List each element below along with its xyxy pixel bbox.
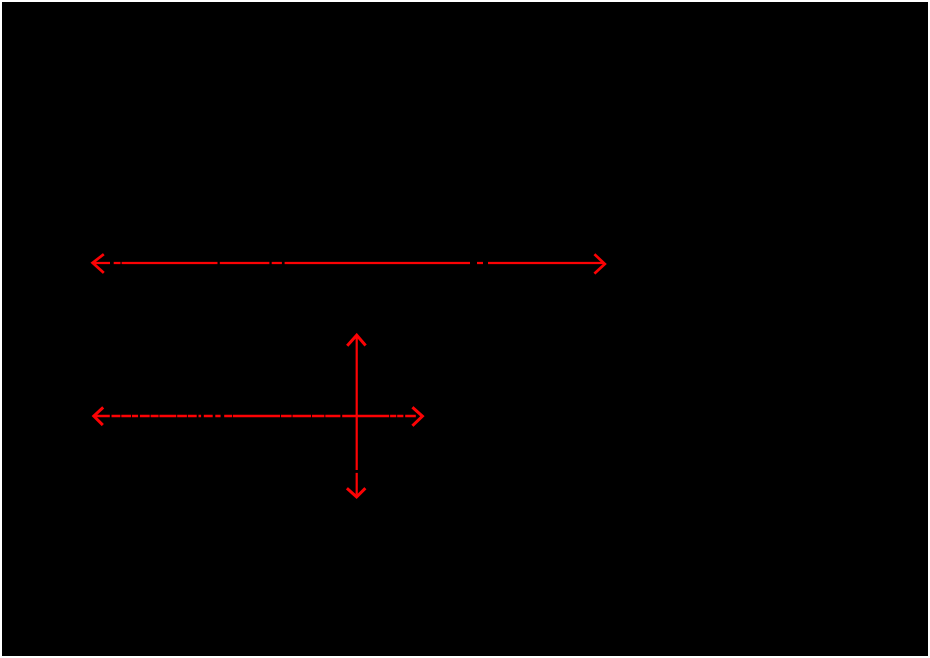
line CD (figure 2) double-headed red arrow, horizontal axis [94, 407, 423, 426]
wire: shaft broken by overlapping text into dashes [96, 415, 416, 417]
wire: main shaft with text-overlap gaps [94, 262, 603, 264]
arrowhead top (figure 2 vertical) [347, 335, 365, 346]
arrowhead right (figure 2 horizontal) [412, 407, 422, 426]
arrowhead left (figure 2 horizontal) [94, 407, 103, 425]
wire: vertical shaft with one text gap near bottom [356, 336, 358, 495]
line EF (figure 2) double-headed red arrow, vertical axis [347, 335, 366, 497]
line AB (figure 1) double-headed red arrow, horizontal [93, 254, 605, 273]
arrowhead bottom (figure 2 vertical) [347, 488, 366, 497]
arrowhead left (figure 1) [93, 254, 104, 273]
arrowhead right (figure 1) [594, 254, 604, 273]
